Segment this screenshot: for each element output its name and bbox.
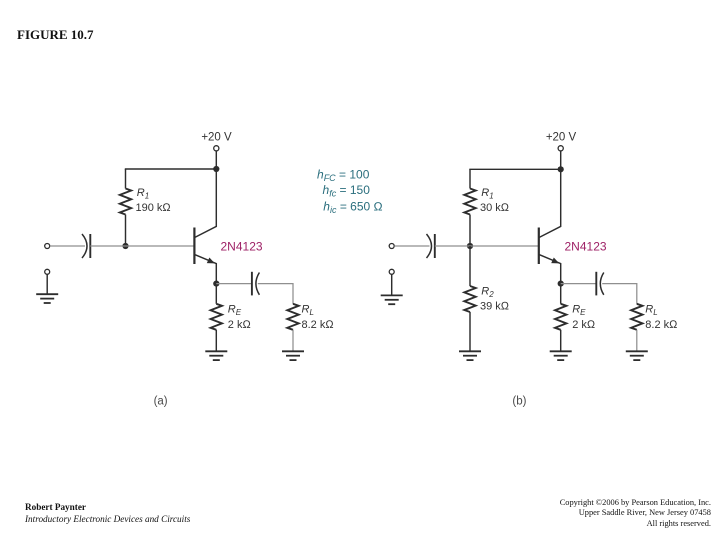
wire input to coupling cap (a) — [50, 245, 85, 247]
wire terminal to ground (b) — [391, 274, 393, 295]
wire RE top lead (a) — [215, 284, 217, 304]
wire RE bottom lead (a) — [215, 330, 217, 352]
node: base junction dot (b) — [467, 243, 473, 249]
wire RE top lead (b) — [560, 284, 562, 304]
wire emitter node to output cap (b) — [561, 283, 597, 285]
ground RE symbol (b) — [550, 351, 572, 360]
node: base junction dot (a) — [122, 243, 128, 249]
ground R2 symbol (b) — [459, 351, 481, 360]
svg-text:+20 V: +20 V — [546, 132, 577, 144]
svg-text:RL: RL — [645, 304, 657, 317]
resistor RE 2k zigzag (a) — [211, 304, 222, 330]
copyright notice — [560, 498, 711, 530]
supply terminal (b) — [558, 146, 563, 151]
ground input symbol (b) — [381, 295, 403, 304]
wire RL bottom lead (a) — [292, 330, 294, 352]
svg-text:8.2 kΩ: 8.2 kΩ — [302, 319, 335, 331]
svg-text:hic = 650 Ω: hic = 650 Ω — [323, 199, 382, 214]
h-parameter annotations — [317, 168, 383, 215]
resistor R1 190k zigzag (a) — [120, 189, 131, 215]
wire input to coupling cap (b) — [394, 245, 429, 247]
transistor Q1 base bar (a) — [193, 228, 195, 265]
capacitor C2 flat plate (b) — [595, 272, 597, 296]
wire supply to node (a) — [215, 151, 217, 169]
ground input terminal (b) — [389, 269, 394, 274]
wire cap to base (b) — [435, 245, 539, 247]
capacitor C1 curved plate (b) — [427, 234, 432, 258]
svg-text:hfc = 150: hfc = 150 — [323, 183, 371, 198]
svg-text:8.2 kΩ: 8.2 kΩ — [645, 319, 678, 331]
resistor RE 2k zigzag (b) — [555, 304, 566, 330]
wire R1 top lead (b) — [469, 169, 471, 188]
svg-text:2 kΩ: 2 kΩ — [572, 319, 596, 331]
wire top rail (b) — [469, 168, 560, 170]
svg-text:R1: R1 — [481, 187, 493, 200]
transistor Q2 emitter arrow (b) — [551, 258, 559, 264]
resistor RL 8.2k zigzag (a) — [287, 304, 298, 330]
input terminal (a) — [45, 244, 50, 249]
svg-text:2 kΩ: 2 kΩ — [228, 319, 252, 331]
svg-text:RE: RE — [228, 304, 242, 317]
svg-text:RL: RL — [302, 304, 314, 317]
wire R2 bottom lead (b) — [469, 312, 471, 351]
svg-text:(b): (b) — [512, 395, 526, 407]
wire cap to RL (b) — [602, 284, 637, 304]
svg-text:190 kΩ: 190 kΩ — [136, 202, 172, 214]
transistor Q2 base bar (b) — [538, 228, 540, 265]
ground input symbol (a) — [36, 294, 58, 303]
transistor Q1 collector (a) — [194, 169, 216, 238]
wire terminal to ground (a) — [46, 274, 48, 294]
node: supply junction dot (b) — [558, 166, 564, 172]
node: supply junction dot (a) — [213, 166, 219, 172]
capacitor C2 curved plate (a) — [256, 273, 260, 295]
wire top rail (a) — [125, 168, 217, 170]
svg-text:39 kΩ: 39 kΩ — [480, 301, 510, 313]
wire R1 top lead (a) — [125, 169, 127, 189]
transistor Q1 emitter arrow (a) — [207, 258, 215, 264]
capacitor C2 flat plate (a) — [251, 272, 253, 296]
resistor R2 39k zigzag (b) — [464, 286, 475, 312]
svg-text:2N4123: 2N4123 — [221, 240, 263, 254]
author credit — [25, 502, 190, 525]
input terminal (b) — [389, 244, 394, 249]
svg-text:R2: R2 — [481, 286, 494, 299]
wire R1 bottom lead (b) — [469, 215, 471, 247]
svg-text:(a): (a) — [154, 395, 168, 407]
capacitor C1 flat plate (a) — [89, 234, 91, 258]
node: emitter junction dot (b) — [558, 281, 564, 287]
svg-text:RE: RE — [572, 304, 586, 317]
svg-text:R1: R1 — [137, 187, 149, 200]
ground RL symbol (a) — [282, 351, 304, 360]
wire cap to RL (a) — [258, 284, 293, 304]
wire cap to base (a) — [90, 245, 194, 247]
transistor Q2 emitter (b) — [539, 254, 561, 283]
ground input terminal (a) — [45, 269, 50, 274]
wire emitter node to output cap (a) — [216, 283, 252, 285]
capacitor C1 curved plate (a) — [82, 234, 87, 258]
svg-text:30 kΩ: 30 kΩ — [480, 202, 510, 214]
wire RL bottom lead (b) — [636, 330, 638, 352]
resistor RL 8.2k zigzag (b) — [631, 304, 642, 330]
node: emitter junction dot (a) — [213, 281, 219, 287]
svg-text:+20 V: +20 V — [201, 132, 232, 144]
svg-text:2N4123: 2N4123 — [565, 240, 607, 254]
resistor R1 30k zigzag (b) — [464, 189, 475, 215]
transistor Q1 emitter (a) — [194, 254, 216, 283]
wire supply to node (b) — [560, 151, 562, 169]
wire RE bottom lead (b) — [560, 330, 562, 352]
svg-text:hFC = 100: hFC = 100 — [317, 168, 370, 183]
ground RE symbol (a) — [205, 351, 227, 360]
figure title — [17, 27, 94, 43]
ground RL symbol (b) — [626, 351, 648, 360]
transistor Q2 collector (b) — [539, 169, 561, 237]
wire R1 bottom lead (a) — [125, 215, 127, 247]
wire R2 top lead (b) — [469, 246, 471, 286]
supply terminal (a) — [214, 146, 219, 151]
capacitor C2 curved plate (b) — [600, 273, 604, 295]
capacitor C1 flat plate (b) — [434, 234, 436, 258]
